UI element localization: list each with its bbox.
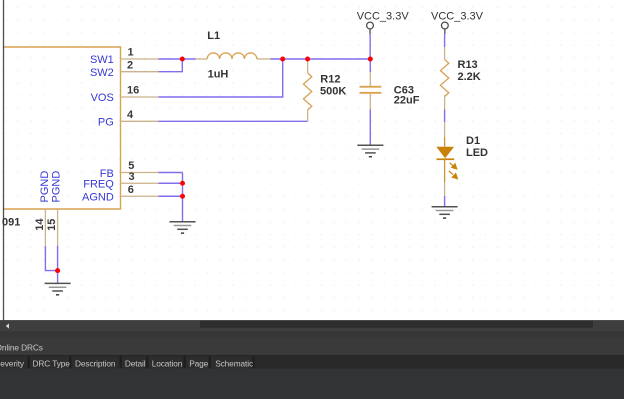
svg-text:LED: LED — [466, 147, 488, 159]
svg-text:SW2: SW2 — [90, 67, 114, 79]
svg-text:Detail: Detail — [125, 359, 146, 369]
svg-text:Location: Location — [152, 359, 183, 369]
svg-text:14: 14 — [34, 218, 46, 231]
svg-text:Online DRCs: Online DRCs — [0, 343, 43, 353]
svg-text:PG: PG — [98, 117, 114, 129]
svg-text:500K: 500K — [320, 86, 346, 98]
svg-text:D1: D1 — [466, 135, 480, 147]
svg-text:R13: R13 — [458, 59, 478, 71]
svg-text:PGND: PGND — [39, 171, 51, 203]
svg-text:2: 2 — [127, 59, 133, 71]
svg-text:SW1: SW1 — [90, 54, 114, 66]
svg-text:15: 15 — [46, 219, 58, 231]
svg-text:DRC Type: DRC Type — [33, 359, 71, 369]
svg-text:Schematic: Schematic — [215, 359, 253, 369]
svg-text:Severity: Severity — [0, 359, 25, 369]
svg-text:4: 4 — [127, 109, 134, 121]
svg-text:2.2K: 2.2K — [458, 71, 481, 83]
svg-text:16: 16 — [127, 85, 139, 97]
svg-text:PGND: PGND — [50, 171, 62, 203]
svg-text:Page: Page — [189, 359, 208, 369]
svg-text:6: 6 — [128, 184, 134, 196]
svg-text:FREQ: FREQ — [83, 179, 114, 191]
svg-text:1: 1 — [128, 47, 134, 59]
svg-text:VCC_3.3V: VCC_3.3V — [431, 10, 484, 22]
svg-text:R12: R12 — [320, 73, 340, 85]
svg-text:Description: Description — [75, 359, 116, 369]
svg-text:VCC_3.3V: VCC_3.3V — [357, 10, 410, 22]
svg-text:22uF: 22uF — [394, 94, 420, 106]
svg-text:1uH: 1uH — [208, 69, 229, 81]
svg-text:L1: L1 — [207, 30, 220, 42]
svg-text:AGND: AGND — [82, 192, 114, 204]
svg-text:3: 3 — [129, 171, 135, 183]
svg-text:091: 091 — [2, 217, 20, 229]
svg-text:VOS: VOS — [91, 92, 114, 104]
